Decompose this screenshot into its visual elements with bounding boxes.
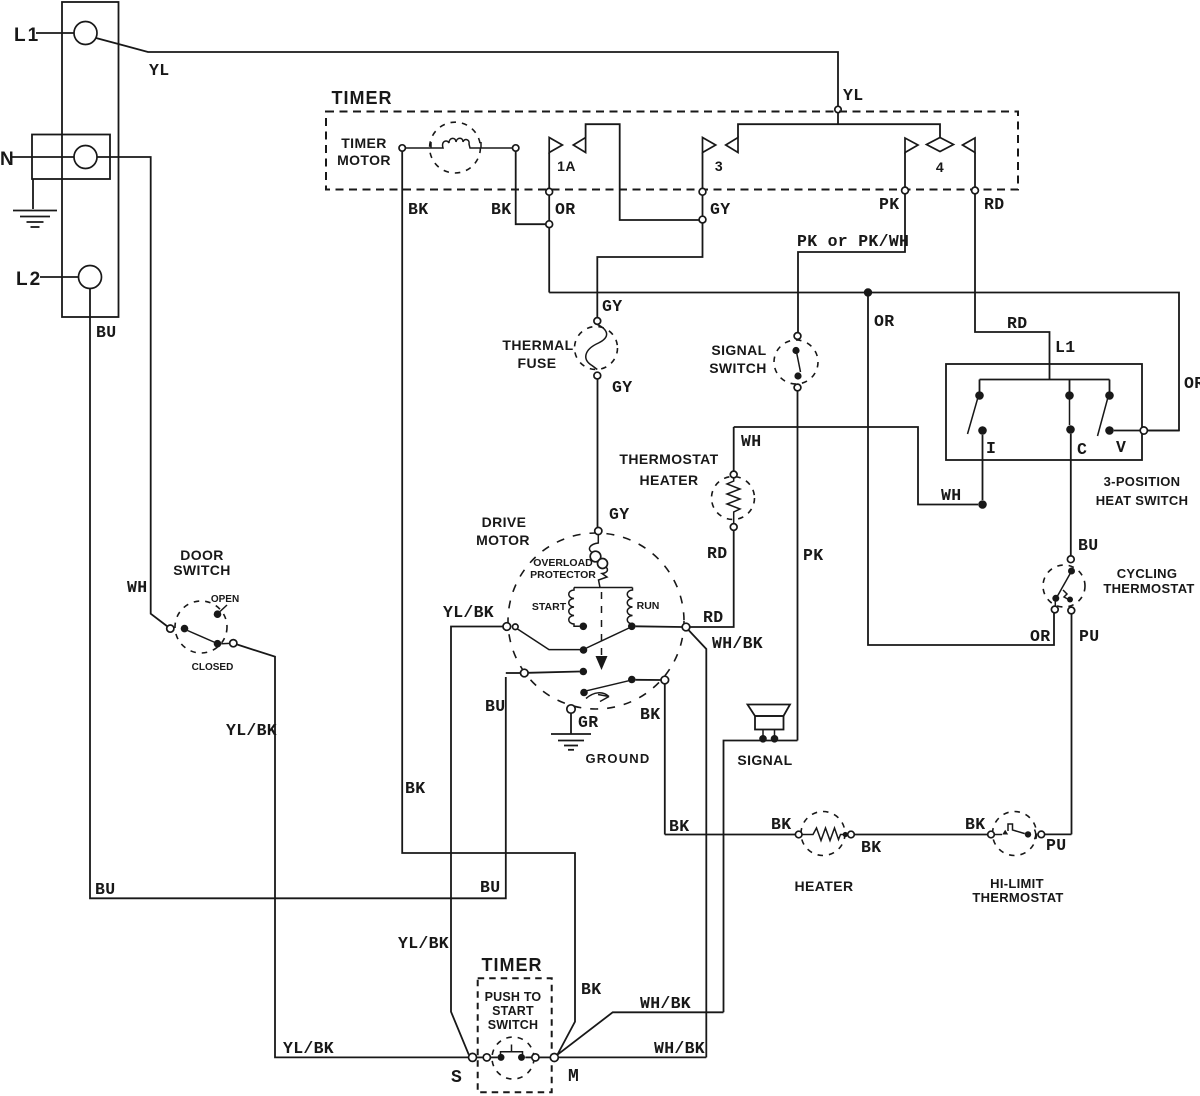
node on timer edge (sw3 pole) [699,188,706,195]
svg-text:RD: RD [984,195,1004,214]
svg-text:V: V [1116,438,1126,457]
wire from heat switch V contact to OR [1114,427,1179,434]
svg-text:RD: RD [707,544,727,563]
svg-text:THERMOSTAT: THERMOSTAT [619,451,718,467]
wire WH from heat switch I contact [982,435,984,500]
svg-text:SWITCH: SWITCH [709,360,767,376]
motor second pole (heater switch) [506,668,669,697]
svg-text:MOTOR: MOTOR [337,152,391,168]
svg-text:SIGNAL: SIGNAL [737,752,792,768]
wire WH/BK from motor run terminal down [688,630,763,1058]
ground (motor) [551,713,650,766]
wire YL drop inside timer [837,112,839,124]
svg-text:YL/BK: YL/BK [398,934,449,953]
svg-text:SWITCH: SWITCH [173,562,231,578]
wire PU hi-limit to cycling thermostat [1045,833,1072,835]
svg-text:WH/BK: WH/BK [654,1039,705,1058]
node junction sw3 pole / 1A NC wire [699,216,706,223]
wire YL/BK from motor to start switch S terminal [398,603,503,1055]
node on timer edge (1A pole) [546,188,553,195]
svg-text:CYCLING: CYCLING [1117,566,1178,581]
motor terminal YL/BK [503,623,511,631]
wire OR bus from 1A pole across to right edge [549,293,1200,431]
svg-text:WH/BK: WH/BK [712,634,763,653]
svg-text:OVERLOAD: OVERLOAD [533,557,593,569]
wire GY from switch 3 to thermal fuse [597,195,730,317]
node on timer edge (sw4 PK pole) [902,187,909,194]
svg-text:HEAT SWITCH: HEAT SWITCH [1096,493,1189,508]
svg-text:L1: L1 [14,25,40,46]
svg-text:HEATER: HEATER [795,878,854,894]
svg-text:N: N [0,149,14,170]
3-position heat switch S5 [946,364,1188,508]
svg-text:PU: PU [1046,836,1066,855]
svg-text:OR: OR [1184,374,1200,393]
timer switch 4 with diamond cam [905,138,975,188]
svg-text:THERMAL: THERMAL [502,337,573,353]
timer switch 1A [549,124,699,220]
motor run/RD terminal [636,623,690,631]
svg-text:1A: 1A [557,158,576,174]
svg-text:YL: YL [149,61,169,80]
svg-text:PK or PK/WH: PK or PK/WH [797,232,909,251]
svg-text:START: START [532,601,567,613]
hi-limit thermostat S7 [972,812,1066,906]
svg-text:BK: BK [669,817,689,836]
wire BK heater to hi-limit [854,815,988,835]
svg-text:BK: BK [581,980,601,999]
node junction OR bus / OR branch [864,288,872,296]
svg-text:BK: BK [965,815,985,834]
node run winding contact [628,623,636,631]
node YL on timer box edge [835,106,841,112]
svg-text:YL/BK: YL/BK [226,721,277,740]
svg-text:GY: GY [710,200,730,219]
svg-text:YL: YL [843,86,863,105]
svg-text:BK: BK [640,705,660,724]
run winding [627,588,659,625]
svg-text:GY: GY [602,297,622,316]
svg-text:WH: WH [941,486,961,505]
wire signal to WH/BK (left) and PK (right) [724,741,798,1013]
wire YL from L1 to timer [96,38,863,106]
wire BU from L2 down and across bottom [90,289,506,900]
svg-text:TIMER: TIMER [482,955,543,975]
TIMER dashed box [326,88,1018,190]
svg-text:GY: GY [612,378,632,397]
svg-text:BK: BK [861,838,881,857]
signal switch S2 [709,333,818,391]
svg-text:HEATER: HEATER [640,472,699,488]
start winding [532,588,580,627]
svg-text:RUN: RUN [637,600,660,612]
node start winding contact [580,623,588,631]
svg-text:BU: BU [485,697,505,716]
push to start switch dashed box [478,978,552,1092]
wire WH/BK bottom from M to motor branch [558,1039,706,1058]
svg-text:WH/BK: WH/BK [640,994,691,1013]
svg-text:OR: OR [874,312,894,331]
svg-text:BK: BK [771,815,791,834]
svg-text:3: 3 [715,158,723,174]
svg-text:MOTOR: MOTOR [476,532,530,548]
svg-text:M: M [568,1067,579,1087]
wire GY from fuse to drive motor [598,379,630,528]
door switch S1 [167,547,239,673]
wire BK heater bus [665,815,796,835]
wire RD from thermostat heater to motor run terminal [690,530,734,627]
terminal L2 [16,266,102,291]
motor winding top bar [574,587,633,589]
svg-text:HI-LIMIT: HI-LIMIT [990,876,1044,891]
svg-text:3-POSITION: 3-POSITION [1104,474,1181,489]
svg-text:PK: PK [803,546,823,565]
signal buzzer [737,705,792,769]
svg-text:RD: RD [1007,314,1027,333]
wire PK from switch 4 to signal switch [797,194,909,333]
wire PU from cycling thermostat to hi-limit [1071,614,1073,835]
svg-text:4: 4 [936,159,944,175]
timer motor M1 [337,122,519,173]
svg-text:THERMOSTAT: THERMOSTAT [1103,581,1194,596]
svg-text:CLOSED: CLOSED [192,662,234,673]
svg-text:DOOR: DOOR [180,547,224,563]
svg-text:GY: GY [609,505,629,524]
cycling thermostat S6 [1043,556,1195,646]
node on timer edge (sw4 RD pole) [972,187,979,194]
wire WH bus (signal circuit to heat switch) [734,427,978,505]
thermal fuse F1 [502,318,632,397]
node junction WH / I contact [978,500,987,509]
wire PK from signal switch to signal [798,391,824,741]
svg-text:START: START [492,1004,534,1018]
svg-text:SIGNAL: SIGNAL [711,342,766,358]
svg-text:BU: BU [480,878,500,897]
wire WH from N to door switch [97,157,168,627]
wire RD from switch 4 to heat switch L1 [975,194,1075,380]
svg-text:YL/BK: YL/BK [443,603,494,622]
svg-text:FUSE: FUSE [518,355,557,371]
svg-text:L2: L2 [16,269,42,290]
svg-text:PU: PU [1079,627,1099,646]
wire OR branch down to cycling thermostat [868,293,1054,647]
svg-text:GR: GR [578,713,598,732]
centrifugal start switch blade [518,628,630,654]
terminal N with box [0,135,110,180]
svg-text:PROTECTOR: PROTECTOR [530,569,596,581]
wire BK from timer motor left terminal down [402,151,601,1054]
heater R1 [795,812,882,895]
centrifugal actuator arrow [586,693,609,702]
svg-text:L1: L1 [1055,338,1075,357]
svg-text:RD: RD [703,608,723,627]
overload protector [530,535,607,588]
svg-text:TIMER: TIMER [332,88,393,108]
wire YL/BK from door switch down to start switch wire [226,644,468,1058]
svg-text:TIMER: TIMER [341,135,387,151]
svg-text:WH: WH [127,578,147,597]
wire WH/BK from M terminal to signal [557,994,723,1055]
svg-text:THERMOSTAT: THERMOSTAT [972,890,1063,905]
svg-text:S: S [451,1068,462,1088]
svg-text:OPEN: OPEN [211,594,239,605]
svg-text:YL/BK: YL/BK [283,1039,334,1058]
push to start switch S3 [451,1037,579,1088]
svg-text:C: C [1077,440,1087,459]
power terminal block [62,2,119,317]
node junction 1A pole / BK [546,221,553,228]
svg-text:PK: PK [879,195,899,214]
motor ground terminal [567,705,599,732]
svg-text:BU: BU [95,880,115,899]
wire BK from timer motor right terminal to 1A pole [491,151,546,224]
ground (power) [13,179,57,227]
svg-text:SWITCH: SWITCH [488,1018,539,1032]
svg-text:BU: BU [1078,536,1098,555]
svg-text:BK: BK [491,200,511,219]
svg-text:DRIVE: DRIVE [482,514,527,530]
svg-text:BK: BK [408,200,428,219]
svg-text:OR: OR [1030,627,1050,646]
svg-text:GROUND: GROUND [586,751,651,766]
svg-text:I: I [986,439,996,458]
wire OR from 1A pole down to bus [549,195,575,292]
wire BK from motor to heater bus [640,684,689,836]
svg-text:WH: WH [741,432,761,451]
terminal L1 [14,22,97,47]
thermostat heater R2 [619,427,754,563]
motor rotor dashed arrow [596,592,608,670]
svg-text:PUSH TO: PUSH TO [485,990,542,1004]
svg-text:OR: OR [555,200,575,219]
svg-text:BU: BU [96,323,116,342]
wire BU from heat switch C contact to cycling thermostat [1071,434,1099,556]
timer switch 3 [703,124,941,188]
svg-text:BK: BK [405,779,425,798]
drive motor M2 [476,514,684,709]
